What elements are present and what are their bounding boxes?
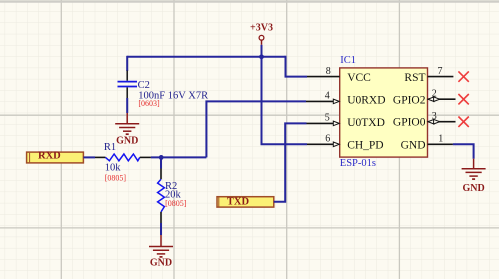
svg-text:RST: RST <box>404 72 425 84</box>
wire: R1 to node A <box>151 156 207 158</box>
svg-text:GPIO0: GPIO0 <box>393 117 426 129</box>
svg-text:GND: GND <box>116 136 138 147</box>
ground GND under C2 <box>115 113 139 147</box>
svg-text:U0TXD: U0TXD <box>347 117 385 129</box>
svg-text:RXD: RXD <box>38 151 61 162</box>
IC IC1 body (ESP-01s) <box>340 55 428 169</box>
junction: node A (R1/R2/U0RXD) <box>159 155 164 160</box>
svg-text:TXD: TXD <box>227 196 250 207</box>
wire: TXD port up to pin 5 U0TXD <box>274 123 307 201</box>
svg-text:GND: GND <box>401 140 426 152</box>
no-connect X pin 3 <box>458 117 468 127</box>
wire: node A down to R2 <box>160 157 162 168</box>
wire: node A up to pin 4 U0RXD <box>206 101 306 157</box>
power +3V3 <box>250 22 273 44</box>
pin 2 GPIO2 <box>428 89 456 102</box>
svg-text:3: 3 <box>432 111 437 122</box>
port TXD <box>217 196 274 207</box>
wire: rail to pin 8 VCC <box>286 56 308 77</box>
svg-text:GND: GND <box>150 258 172 269</box>
svg-text:GND: GND <box>462 183 484 194</box>
svg-text:[0805]: [0805] <box>165 199 187 208</box>
svg-text:[0603]: [0603] <box>138 99 160 108</box>
svg-text:C2: C2 <box>138 80 150 91</box>
pin 1 GND <box>428 134 453 145</box>
svg-text:7: 7 <box>438 66 443 77</box>
pin 3 GPIO0 <box>428 111 456 124</box>
R1 labels <box>104 142 126 182</box>
wire: RXD port to R1 <box>83 156 95 158</box>
ground GND under R2 <box>149 235 173 269</box>
port RXD <box>27 151 84 163</box>
pin 7 RST <box>428 66 454 77</box>
svg-text:GPIO2: GPIO2 <box>393 94 426 106</box>
pin 8 VCC <box>307 66 340 77</box>
svg-text:8: 8 <box>326 66 331 77</box>
IC1 pin name labels <box>347 72 426 152</box>
svg-text:4: 4 <box>325 91 330 102</box>
wire: R2 to ground <box>160 223 162 235</box>
svg-text:IC1: IC1 <box>340 55 356 66</box>
wire: +3V3 stem down to rail <box>261 45 263 57</box>
wire: rail down to pin 6 CH_PD <box>262 57 308 145</box>
resistor R2 <box>158 169 165 224</box>
svg-text:U0RXD: U0RXD <box>347 94 385 106</box>
svg-text:CH_PD: CH_PD <box>347 140 383 152</box>
svg-text:2: 2 <box>432 89 437 100</box>
pin 5 U0TXD <box>307 113 340 126</box>
C2 labels <box>138 80 209 108</box>
wire: rail down to C2 <box>126 56 128 71</box>
pin 6 CH_PD <box>307 134 339 147</box>
svg-text:ESP-01s: ESP-01s <box>340 158 376 169</box>
svg-text:VCC: VCC <box>347 72 371 84</box>
wire: pin 1 to ground <box>453 144 474 158</box>
pin 4 U0RXD <box>306 91 339 104</box>
no-connect X pin 2 <box>458 94 468 104</box>
capacitor C2 <box>118 71 138 99</box>
svg-text:5: 5 <box>325 113 330 124</box>
ground GND at pin 1 <box>462 159 486 194</box>
svg-text:1: 1 <box>438 134 443 145</box>
svg-text:R1: R1 <box>104 142 116 153</box>
svg-text:+3V3: +3V3 <box>250 22 273 33</box>
R2 labels <box>165 181 187 208</box>
svg-text:[0805]: [0805] <box>105 173 127 182</box>
svg-text:6: 6 <box>325 134 330 145</box>
wire: C2 to ground <box>126 98 128 113</box>
junction: +3V3 node <box>259 54 264 59</box>
no-connect X pin 7 <box>458 71 468 81</box>
wire: +3V3 horizontal rail <box>127 56 285 58</box>
resistor R1 <box>95 154 151 161</box>
svg-text:10k: 10k <box>105 163 122 174</box>
